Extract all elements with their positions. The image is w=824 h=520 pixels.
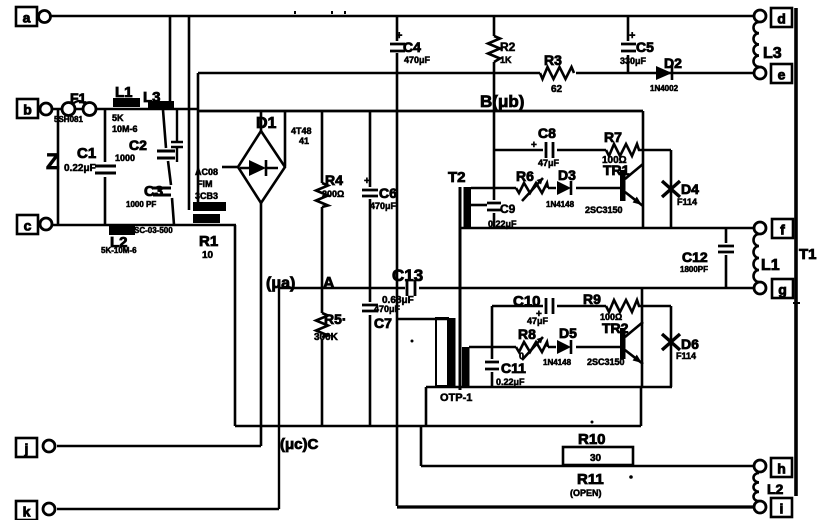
capacitor C10 — [513, 293, 553, 326]
svg-text:k: k — [23, 504, 31, 520]
svg-text:5K: 5K — [112, 113, 124, 123]
svg-text:T2: T2 — [448, 169, 466, 186]
svg-text:R8: R8 — [518, 326, 536, 342]
zener D6 — [662, 306, 699, 387]
fuse F1 — [54, 90, 96, 124]
svg-text:A: A — [323, 275, 335, 292]
wire top bus a-d y16 — [295, 11, 345, 14]
svg-text:1000: 1000 — [115, 153, 135, 163]
svg-text:C12: C12 — [682, 249, 708, 265]
module AC08 FIM 3CB3 — [193, 167, 226, 223]
inductor L1 — [112, 84, 140, 134]
wire k y509 and vertical x279 — [57, 288, 279, 509]
wire c line y225 — [52, 224, 236, 227]
svg-text:C6: C6 — [379, 185, 397, 201]
svg-text:10: 10 — [202, 250, 214, 261]
wire vertical x322 R4 R5 branch — [321, 111, 324, 426]
capacitor C11 — [485, 360, 526, 387]
svg-text:1N4148: 1N4148 — [546, 200, 575, 209]
svg-text:B(μb): B(μb) — [480, 92, 524, 111]
terminal h — [754, 458, 792, 477]
svg-text:c: c — [24, 218, 32, 234]
svg-text:a: a — [23, 10, 31, 26]
svg-text:C8: C8 — [538, 125, 556, 141]
svg-text:R1: R1 — [199, 233, 218, 250]
capacitor C7 — [362, 304, 401, 331]
capacitor small between lines — [171, 110, 183, 162]
svg-text:R6: R6 — [516, 168, 534, 184]
svg-text:C2: C2 — [129, 137, 147, 153]
capacitor C4 — [390, 30, 431, 65]
transformer T1 core line — [794, 8, 798, 496]
svg-text:F114: F114 — [676, 351, 696, 361]
svg-text:F114: F114 — [677, 197, 697, 207]
wire vertical x397 long column — [396, 16, 399, 506]
svg-text:41: 41 — [299, 136, 309, 146]
noise marks — [629, 475, 633, 479]
capacitor C2 — [115, 137, 175, 163]
svg-text:(OPEN): (OPEN) — [570, 488, 602, 498]
wire vertical x370 C6 C7 branch — [369, 111, 372, 426]
terminal d — [754, 8, 792, 27]
svg-text:D1: D1 — [256, 115, 277, 132]
svg-text:AC08: AC08 — [195, 167, 218, 177]
svg-text:C7: C7 — [374, 315, 392, 331]
svg-text:R7: R7 — [604, 129, 622, 145]
terminal e — [754, 64, 792, 83]
svg-text:D5: D5 — [559, 325, 577, 341]
terminal b — [17, 99, 52, 118]
svg-text:200Ω: 200Ω — [322, 189, 344, 199]
diode D5 — [543, 325, 577, 367]
transformer T2 upper winding — [464, 187, 472, 228]
svg-text:C4: C4 — [403, 39, 421, 55]
transistor TR2 — [587, 288, 643, 387]
svg-text:F1: F1 — [70, 90, 87, 106]
svg-text:C3: C3 — [144, 183, 163, 200]
terminal i — [754, 498, 792, 517]
svg-text:1K: 1K — [500, 55, 512, 65]
svg-text:1000 PF: 1000 PF — [126, 200, 156, 209]
wire vertical x494 — [493, 16, 496, 228]
wire emitter rail y387 — [426, 386, 672, 388]
svg-text:L3: L3 — [763, 45, 782, 62]
svg-text:d: d — [777, 11, 786, 27]
svg-text:+: + — [531, 140, 537, 151]
svg-text:(μc)C: (μc)C — [280, 436, 319, 453]
svg-text:C9: C9 — [500, 202, 516, 216]
wire vertical x492 C11 branch — [491, 306, 494, 387]
svg-text:L3: L3 — [143, 89, 161, 106]
transformer T2 core — [459, 187, 462, 390]
trimmer R8 — [516, 326, 548, 361]
wire upper base line y188 — [471, 187, 620, 190]
svg-text:3CB3: 3CB3 — [195, 191, 218, 201]
svg-text:R2: R2 — [500, 40, 516, 54]
resistor R9 — [583, 291, 642, 322]
terminal a — [16, 7, 51, 26]
svg-text:R5·: R5· — [324, 311, 347, 327]
svg-text:(μa): (μa) — [266, 275, 295, 292]
capacitor C3 — [126, 183, 171, 209]
svg-text:FIM: FIM — [197, 179, 213, 189]
svg-text:470μF: 470μF — [370, 201, 397, 211]
svg-text:47μF: 47μF — [538, 158, 560, 168]
capacitor C6 — [362, 176, 397, 211]
svg-text:0.22μF: 0.22μF — [496, 377, 525, 387]
wire bottom bus y507 to i — [397, 505, 755, 508]
svg-text:Z: Z — [46, 149, 59, 174]
svg-text:C5: C5 — [636, 39, 654, 55]
transformer T2 primary winding — [436, 318, 456, 386]
terminal f — [754, 219, 793, 238]
svg-text:+: + — [629, 30, 635, 42]
svg-text:L1: L1 — [115, 84, 133, 101]
resistor R11 open — [570, 471, 604, 498]
svg-text:C10: C10 — [513, 293, 541, 310]
svg-text:g: g — [778, 282, 787, 298]
capacitor C8 — [531, 125, 560, 168]
svg-text:T1: T1 — [799, 246, 817, 263]
wire D1 right stub — [284, 111, 287, 166]
resistor R2 — [488, 36, 516, 65]
wire feedback y466 to h — [421, 426, 755, 466]
wire left stub D1 — [222, 166, 238, 169]
svg-text:D6: D6 — [681, 336, 699, 352]
svg-text:OTP-1: OTP-1 — [440, 392, 472, 404]
wire branch to T2 primary y319 — [397, 318, 448, 321]
inductor L1 output coil — [754, 234, 780, 282]
svg-text:2SC3150: 2SC3150 — [587, 357, 625, 367]
diode D2 — [650, 55, 682, 93]
svg-text:L2: L2 — [767, 481, 784, 497]
svg-text:30: 30 — [590, 453, 602, 464]
wire lower base line y347 — [469, 346, 620, 349]
svg-text:TR2: TR2 — [602, 320, 629, 336]
svg-text:i: i — [780, 501, 784, 517]
svg-text:47μF: 47μF — [527, 316, 549, 326]
resistor R7 — [602, 129, 642, 166]
transistor TR1 — [585, 111, 643, 228]
inductor L2 output coil — [754, 473, 784, 501]
svg-text:470μF: 470μF — [404, 55, 431, 65]
wire tilted Y-cap chain — [163, 110, 174, 225]
terminal c — [17, 215, 52, 234]
wire D1 bottom column to C bus and j — [260, 203, 263, 446]
svg-text:L1: L1 — [761, 257, 780, 274]
svg-text:C1: C1 — [77, 145, 96, 162]
svg-text:1800PF: 1800PF — [680, 265, 708, 274]
svg-text:62: 62 — [551, 84, 563, 95]
svg-text:1N4002: 1N4002 — [650, 84, 679, 93]
capacitor C13 — [382, 266, 423, 306]
terminal j — [16, 438, 55, 457]
resistor R1 — [199, 233, 218, 261]
svg-text:f: f — [780, 222, 785, 238]
svg-text:1N4148: 1N4148 — [543, 358, 572, 367]
resistor R3 — [540, 52, 574, 95]
svg-text:0.22μF: 0.22μF — [64, 163, 96, 174]
resistor R10 — [563, 431, 633, 465]
wire D1 top stub to B bus — [260, 111, 263, 131]
resistor R5 — [314, 311, 347, 343]
node B bus — [198, 110, 643, 113]
bridge rectifier D1 — [238, 115, 312, 203]
inductor L2 — [101, 226, 137, 255]
wire RC feedback lower y306 — [492, 305, 671, 308]
capacitor C5 — [620, 16, 654, 73]
svg-text:R3: R3 — [544, 52, 562, 68]
svg-text:R11: R11 — [577, 471, 604, 488]
svg-text:b: b — [23, 102, 32, 118]
wire second bus y73 to e — [198, 72, 755, 75]
svg-text:300K: 300K — [314, 332, 339, 343]
resistor R4 — [316, 172, 344, 207]
wire vertical x235 — [234, 225, 237, 426]
svg-text:+: + — [396, 30, 402, 42]
transformer T2 lower winding — [462, 347, 470, 388]
svg-text:D4: D4 — [681, 181, 699, 197]
inductor L3 left — [143, 89, 174, 110]
wire vertical x170 from top bus to b wire — [169, 16, 172, 109]
svg-text:D2: D2 — [664, 55, 682, 71]
diode D3 — [546, 167, 576, 209]
wire vertical x197 from y73 bus down — [197, 73, 200, 207]
svg-text:R4: R4 — [325, 172, 343, 188]
trimmer R6 — [516, 168, 548, 201]
wire vertical x58 varistor branch — [57, 109, 60, 225]
capacitor C1 — [64, 145, 116, 174]
svg-text:C11: C11 — [501, 360, 526, 376]
svg-text:SC-03-500: SC-03-500 — [134, 226, 173, 235]
svg-text:5SH081: 5SH081 — [54, 115, 83, 124]
svg-text:4T48: 4T48 — [291, 126, 312, 136]
svg-text:R10: R10 — [578, 431, 606, 448]
zener D4 — [662, 150, 699, 228]
svg-text:2SC3150: 2SC3150 — [585, 205, 623, 215]
terminal g — [754, 279, 793, 298]
svg-text:j: j — [24, 441, 29, 457]
wire j y446 — [57, 445, 261, 448]
node C bus y426 — [235, 425, 641, 427]
svg-text:R9: R9 — [583, 291, 601, 307]
wire RC feedback upper y150 — [494, 149, 671, 152]
wire rect left x426 — [425, 387, 428, 426]
wire vertical x189 from top bus — [188, 16, 191, 210]
svg-text:TR1: TR1 — [603, 162, 630, 178]
svg-text:+: + — [364, 176, 370, 187]
inductor L3 output coil — [754, 22, 782, 67]
wire vertical x105 C1 branch — [104, 109, 107, 225]
wire rect right x641 — [640, 387, 643, 426]
svg-text:e: e — [778, 67, 786, 83]
capacitor C9 — [471, 202, 517, 229]
node f bus y228 — [460, 227, 755, 230]
svg-text:5K-10M-6: 5K-10M-6 — [101, 246, 137, 255]
svg-text:h: h — [777, 461, 786, 477]
svg-text:10M-6: 10M-6 — [112, 124, 138, 134]
svg-text:330μF: 330μF — [620, 56, 647, 66]
wire b line y109 — [52, 108, 198, 111]
svg-text:D3: D3 — [558, 167, 576, 183]
capacitor C12 — [680, 228, 734, 288]
terminal k — [16, 501, 55, 520]
node A bus y288 — [279, 287, 755, 289]
